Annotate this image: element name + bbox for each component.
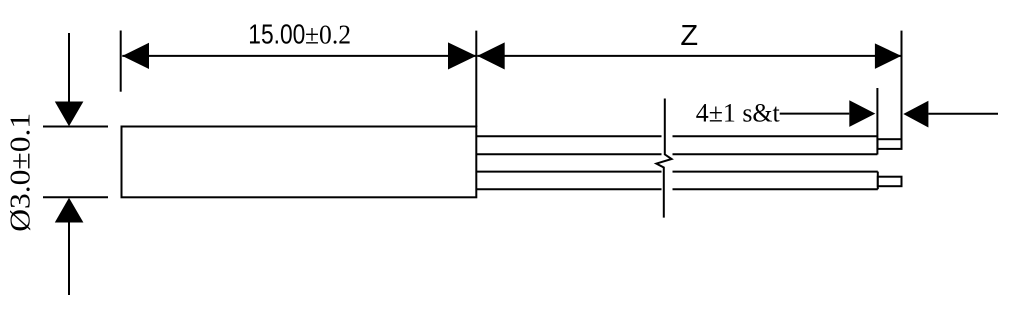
shared extension line between 15.00 and Z dims xyxy=(475,31,477,127)
diameter dim lower extension line xyxy=(43,196,108,198)
lower wire bottom line (right of break) xyxy=(673,188,878,190)
dimension line 15.00 xyxy=(122,55,476,57)
down arrowhead of diameter dim xyxy=(55,102,84,127)
arrowhead right of 15.00 dim xyxy=(448,42,476,69)
arrowhead right of Z dim xyxy=(875,43,901,69)
body rectangle (probe housing) xyxy=(122,127,477,198)
svg-text:Ø3.0±0.1: Ø3.0±0.1 xyxy=(5,113,36,232)
upper wire end edge / extension line of 4±1 dim xyxy=(876,88,878,155)
arrowhead left of Z dim xyxy=(477,42,504,69)
lower wire top line (right of break) xyxy=(673,171,878,173)
svg-text:Z: Z xyxy=(680,20,698,52)
lower wire top line (left of break) xyxy=(476,171,661,173)
leader line from 4±1 label xyxy=(780,113,850,115)
upper wire top line (right of break) xyxy=(673,135,878,137)
lower wire tinned end xyxy=(878,177,902,187)
left-pointing arrowhead of 4±1 dim xyxy=(903,101,928,128)
lower wire bottom line (left of break) xyxy=(476,188,661,190)
dimension line Z xyxy=(477,55,901,57)
up arrowhead of diameter dim xyxy=(55,198,84,223)
svg-text:15.00: 15.00 xyxy=(248,19,305,50)
diameter dim upper extension line xyxy=(43,126,108,128)
right-pointing arrowhead of 4±1 dim xyxy=(849,100,875,127)
upper wire top line (left of break) xyxy=(476,135,661,137)
extension line left of 15.00 dim xyxy=(120,31,122,92)
upper wire bottom line (right of break) xyxy=(673,153,878,155)
upper wire bottom line (left of break) xyxy=(476,153,661,155)
arrowhead left of 15.00 dim xyxy=(122,43,149,69)
lower wire end edge xyxy=(877,172,879,190)
upper leader line of diameter dim xyxy=(68,33,70,104)
lower leader line of diameter dim xyxy=(68,222,70,295)
svg-text:4±1 s&t: 4±1 s&t xyxy=(696,99,781,128)
upper wire tinned end xyxy=(878,139,902,149)
svg-text:±0.2: ±0.2 xyxy=(305,20,351,50)
right leader line of 4±1 dim xyxy=(928,113,998,115)
break line with zigzag xyxy=(656,99,671,218)
extension line right of Z dim xyxy=(901,31,903,139)
